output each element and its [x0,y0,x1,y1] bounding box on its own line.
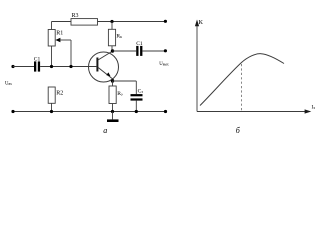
svg-text:а: а [103,126,107,135]
svg-text:Iэ: Iэ [312,104,316,110]
wire C1 to base [40,66,96,68]
wire emitter to Re [112,81,114,86]
resistor Re [109,86,123,104]
wire R1 top lead [51,22,53,30]
capacitor Ce [131,89,144,101]
wire bottom rail [13,111,166,113]
graph axis K (vertical) [195,19,204,112]
wire Ce bottom lead [135,101,137,112]
node junction input/R1/R2 [50,65,53,68]
resistor R2 [48,87,63,103]
node junction bottom rail / Ce [135,110,138,113]
wire R1 wiper arrow [55,38,71,67]
wire emitter branch to Ce [113,81,137,94]
svg-text:Rэ: Rэ [117,91,123,97]
wire collector to C2 [113,50,137,52]
resistor R3 [71,13,98,25]
node emitter junction [111,79,114,82]
capacitor C1 (output) [136,41,143,56]
node top rail right endpoint [164,20,167,23]
svg-text:Rк: Rк [116,34,122,40]
wire top rail right segment [98,21,166,23]
wire R1 bottom lead [51,46,53,67]
transistor VT1 [89,51,119,82]
wire dashed marker line [241,64,243,112]
wire Rk top lead [111,22,113,30]
node junction bottom rail / Re / ground [111,110,114,113]
svg-text:R3: R3 [72,13,79,19]
svg-text:Сэ: Сэ [138,89,144,95]
node bottom rail left endpoint [11,110,14,113]
svg-text:С1: С1 [136,41,143,47]
wire R2 bottom lead [51,103,53,111]
wire input to C1 [13,66,34,68]
svg-text:С1: С1 [34,56,41,62]
node junction input/wiper [69,65,72,68]
curve gain characteristic [200,54,284,106]
node junction top rail / Rk [110,20,113,23]
resistor Rk [108,29,122,46]
wire top rail left segment [52,21,72,23]
node bottom rail right endpoint [164,110,167,113]
capacitor C1 (input) [34,56,41,71]
svg-text:К: К [199,19,204,26]
svg-text:R2: R2 [56,90,63,96]
wire Re bottom lead [112,104,114,112]
node junction bottom rail / R2 [50,110,53,113]
svg-text:Uвых: Uвых [159,62,169,67]
wire C2 to output terminal [142,50,165,52]
resistor R1 (variable) [48,30,63,47]
node collector junction [111,49,114,52]
wire Rk bottom lead [111,46,113,51]
node input terminal [11,65,14,68]
svg-text:R1: R1 [56,31,63,37]
graph axis Ie (horizontal) [197,104,315,113]
node output terminal [164,49,167,52]
svg-text:Uвх: Uвх [5,82,12,87]
ground [107,112,119,123]
